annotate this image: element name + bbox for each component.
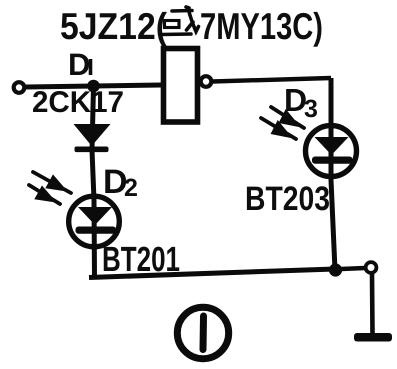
ground bbox=[354, 333, 392, 342]
svg-text:3: 3 bbox=[304, 95, 318, 123]
photocell D3 circle bbox=[306, 126, 357, 177]
wire left horizontal bbox=[26, 85, 161, 87]
svg-text:D: D bbox=[68, 47, 90, 82]
light arrow 2 into D2 bbox=[29, 185, 60, 204]
wire top right horizontal bbox=[212, 78, 331, 82]
node junction bottom right bbox=[329, 263, 342, 276]
light arrow 1 into D2 bbox=[33, 172, 71, 193]
wire bottom horizontal bbox=[89, 269, 335, 278]
svg-text:2CK17: 2CK17 bbox=[32, 86, 124, 119]
light arrow 1 into D3 bbox=[271, 107, 304, 128]
svg-text:7MY13C): 7MY13C) bbox=[200, 5, 323, 47]
photocell D3 diode bbox=[312, 137, 353, 164]
terminal on regulator right pin bbox=[201, 76, 212, 87]
wire to ground terminal bbox=[341, 268, 365, 269]
terminal input left bbox=[14, 82, 25, 93]
wire ground stem bbox=[370, 274, 375, 334]
photocell D2 circle bbox=[69, 196, 120, 247]
wire right vertical bbox=[331, 78, 335, 270]
diode D1 2CK17 bbox=[74, 124, 111, 152]
wire left vertical branch bbox=[92, 86, 95, 278]
svg-text:BT203: BT203 bbox=[245, 180, 330, 218]
title Chinese char 或 (or) bbox=[162, 7, 199, 35]
svg-text:2: 2 bbox=[124, 174, 138, 202]
terminal ground side bbox=[366, 262, 377, 273]
light arrow 2 into D3 bbox=[261, 118, 296, 139]
svg-text:5JZ12(: 5JZ12( bbox=[60, 5, 167, 47]
photocell D2 diode bbox=[76, 207, 117, 234]
node junction D1 bbox=[87, 80, 100, 93]
figure number circle 1 bbox=[177, 307, 228, 358]
regulator component box 5JZ12 bbox=[164, 49, 198, 123]
